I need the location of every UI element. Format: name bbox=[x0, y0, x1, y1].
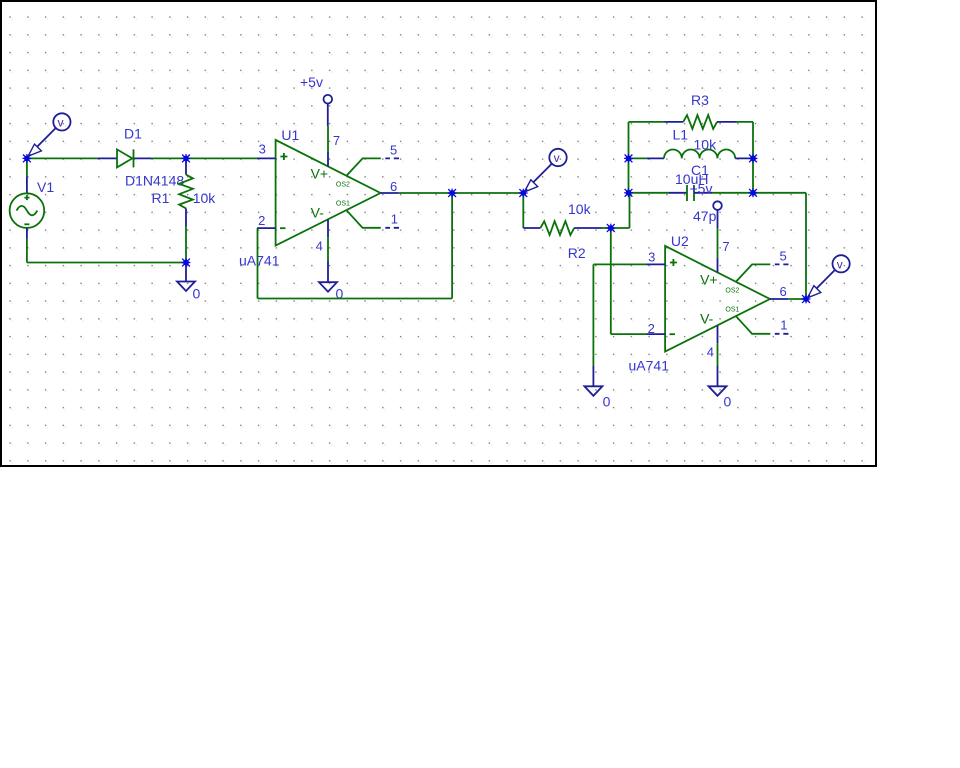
svg-text:C1: C1 bbox=[691, 162, 709, 178]
svg-text:U2: U2 bbox=[671, 233, 689, 249]
wire node A down to V1 bbox=[26, 158, 28, 176]
svg-text:U1: U1 bbox=[281, 127, 299, 143]
svg-text:2: 2 bbox=[258, 213, 265, 228]
power +5v for U1 bbox=[324, 95, 333, 126]
wire node B to U1 pin 3 bbox=[186, 157, 257, 159]
wire U1 pin 4 to ground bbox=[327, 237, 329, 261]
voltage source V1 bbox=[10, 176, 45, 239]
svg-text:v: v bbox=[554, 151, 560, 165]
wire feedback bottom run bbox=[258, 298, 453, 300]
op-amp U1 bbox=[257, 140, 399, 246]
svg-text:OS2: OS2 bbox=[725, 287, 739, 294]
wire feedback up to U1 pin 2 bbox=[257, 228, 259, 298]
svg-text:6: 6 bbox=[780, 284, 787, 299]
wire node E right bbox=[611, 227, 630, 229]
junction tank left lower bbox=[624, 188, 633, 197]
svg-text:6: 6 bbox=[390, 179, 397, 194]
svg-text:0: 0 bbox=[603, 393, 611, 409]
wire up to tank bottom left bbox=[629, 193, 631, 228]
svg-text:OS1: OS1 bbox=[725, 306, 739, 313]
wire down to ground G3 bbox=[592, 264, 594, 366]
svg-text:3: 3 bbox=[648, 249, 655, 264]
junction node D bbox=[519, 189, 528, 198]
svg-text:1: 1 bbox=[780, 318, 787, 333]
svg-text:+5v: +5v bbox=[300, 74, 323, 90]
svg-text:v: v bbox=[58, 116, 64, 130]
wire node E down bbox=[610, 228, 612, 334]
diode D1 bbox=[97, 149, 151, 167]
wire corner down to U2 output node bbox=[805, 193, 807, 299]
tank right bus wire bbox=[752, 122, 754, 193]
svg-text:2: 2 bbox=[648, 321, 655, 336]
svg-text:D1: D1 bbox=[124, 126, 142, 142]
svg-text:+5v: +5v bbox=[690, 180, 713, 196]
ground 0 left of U2 bbox=[584, 366, 602, 396]
svg-text:D1N4148: D1N4148 bbox=[125, 173, 184, 189]
svg-text:4: 4 bbox=[316, 238, 323, 253]
svg-text:R2: R2 bbox=[568, 245, 586, 261]
wire V1 bottom down bbox=[26, 239, 28, 263]
resistor R2 bbox=[523, 221, 611, 235]
wire +5v to U2 pin 7 bbox=[717, 228, 719, 258]
junction node E bbox=[606, 224, 615, 233]
wire U2 pin 3 to left bbox=[593, 263, 646, 265]
svg-text:47p: 47p bbox=[693, 208, 717, 224]
wire tank right to corner bbox=[753, 192, 806, 194]
svg-text:7: 7 bbox=[333, 133, 340, 148]
svg-text:OS2: OS2 bbox=[336, 181, 350, 188]
svg-text:V-: V- bbox=[700, 311, 714, 327]
svg-text:0: 0 bbox=[724, 394, 732, 410]
junction node C bbox=[448, 189, 457, 198]
svg-text:7: 7 bbox=[722, 239, 729, 254]
junction node B bbox=[182, 154, 191, 163]
svg-text:R1: R1 bbox=[152, 190, 170, 206]
wire +5v to U1 pin 7 bbox=[327, 126, 329, 152]
inductor L1 bbox=[629, 149, 754, 158]
junction tank right lower bbox=[749, 188, 758, 197]
wire node A to diode D1 anode bbox=[27, 157, 98, 159]
wire node C to node D bbox=[452, 192, 523, 194]
svg-text:V+: V+ bbox=[700, 272, 718, 288]
wire feedback down from node C bbox=[451, 193, 453, 299]
junction tank left upper bbox=[624, 154, 633, 163]
wire node D down bbox=[522, 193, 524, 228]
ground 0 below U2 bbox=[709, 366, 727, 396]
junction tank right upper bbox=[749, 154, 758, 163]
junction node A bbox=[23, 154, 32, 163]
svg-text:V1: V1 bbox=[37, 179, 54, 195]
ground 0 below R1 bbox=[177, 263, 195, 292]
wire R1 bottom to node F bbox=[185, 226, 187, 263]
wire U1 output to node C bbox=[399, 192, 452, 194]
power +5v for U2 bbox=[713, 201, 722, 228]
op-amp U2 bbox=[647, 246, 789, 352]
svg-text:OS1: OS1 bbox=[336, 200, 350, 207]
svg-text:uA741: uA741 bbox=[629, 358, 670, 374]
svg-text:10k: 10k bbox=[193, 190, 217, 206]
svg-text:L1: L1 bbox=[673, 126, 689, 142]
svg-text:4: 4 bbox=[707, 344, 714, 359]
svg-text:5: 5 bbox=[780, 248, 787, 263]
junction node G bbox=[802, 295, 811, 304]
svg-text:v: v bbox=[837, 258, 843, 272]
capacitor C1 bbox=[629, 185, 754, 201]
svg-text:5: 5 bbox=[390, 142, 397, 157]
wire bottom rail V1 to R1 bbox=[27, 262, 186, 264]
svg-text:R3: R3 bbox=[691, 92, 709, 108]
svg-text:3: 3 bbox=[259, 142, 266, 157]
svg-text:1: 1 bbox=[391, 212, 398, 227]
ground 0 below U1 bbox=[319, 261, 337, 292]
svg-text:V+: V+ bbox=[311, 166, 329, 182]
resistor R3 bbox=[629, 115, 754, 129]
wire U2 output to node G bbox=[788, 298, 806, 300]
svg-text:V-: V- bbox=[311, 205, 325, 221]
wire to U2 pin 2 bbox=[611, 333, 647, 335]
wire U2 pin 4 down bbox=[717, 343, 719, 366]
junction node F bbox=[182, 258, 191, 267]
wire diode D1 cathode to node B bbox=[152, 157, 186, 159]
svg-text:uA741: uA741 bbox=[239, 253, 280, 269]
svg-text:0: 0 bbox=[193, 286, 201, 302]
probe V at node A bbox=[28, 113, 71, 156]
probe V at U2 output bbox=[807, 255, 849, 298]
svg-text:10k: 10k bbox=[568, 201, 592, 217]
resistor R1 bbox=[179, 158, 193, 226]
tank left bus wire bbox=[628, 122, 630, 193]
probe V at node D bbox=[524, 149, 566, 192]
